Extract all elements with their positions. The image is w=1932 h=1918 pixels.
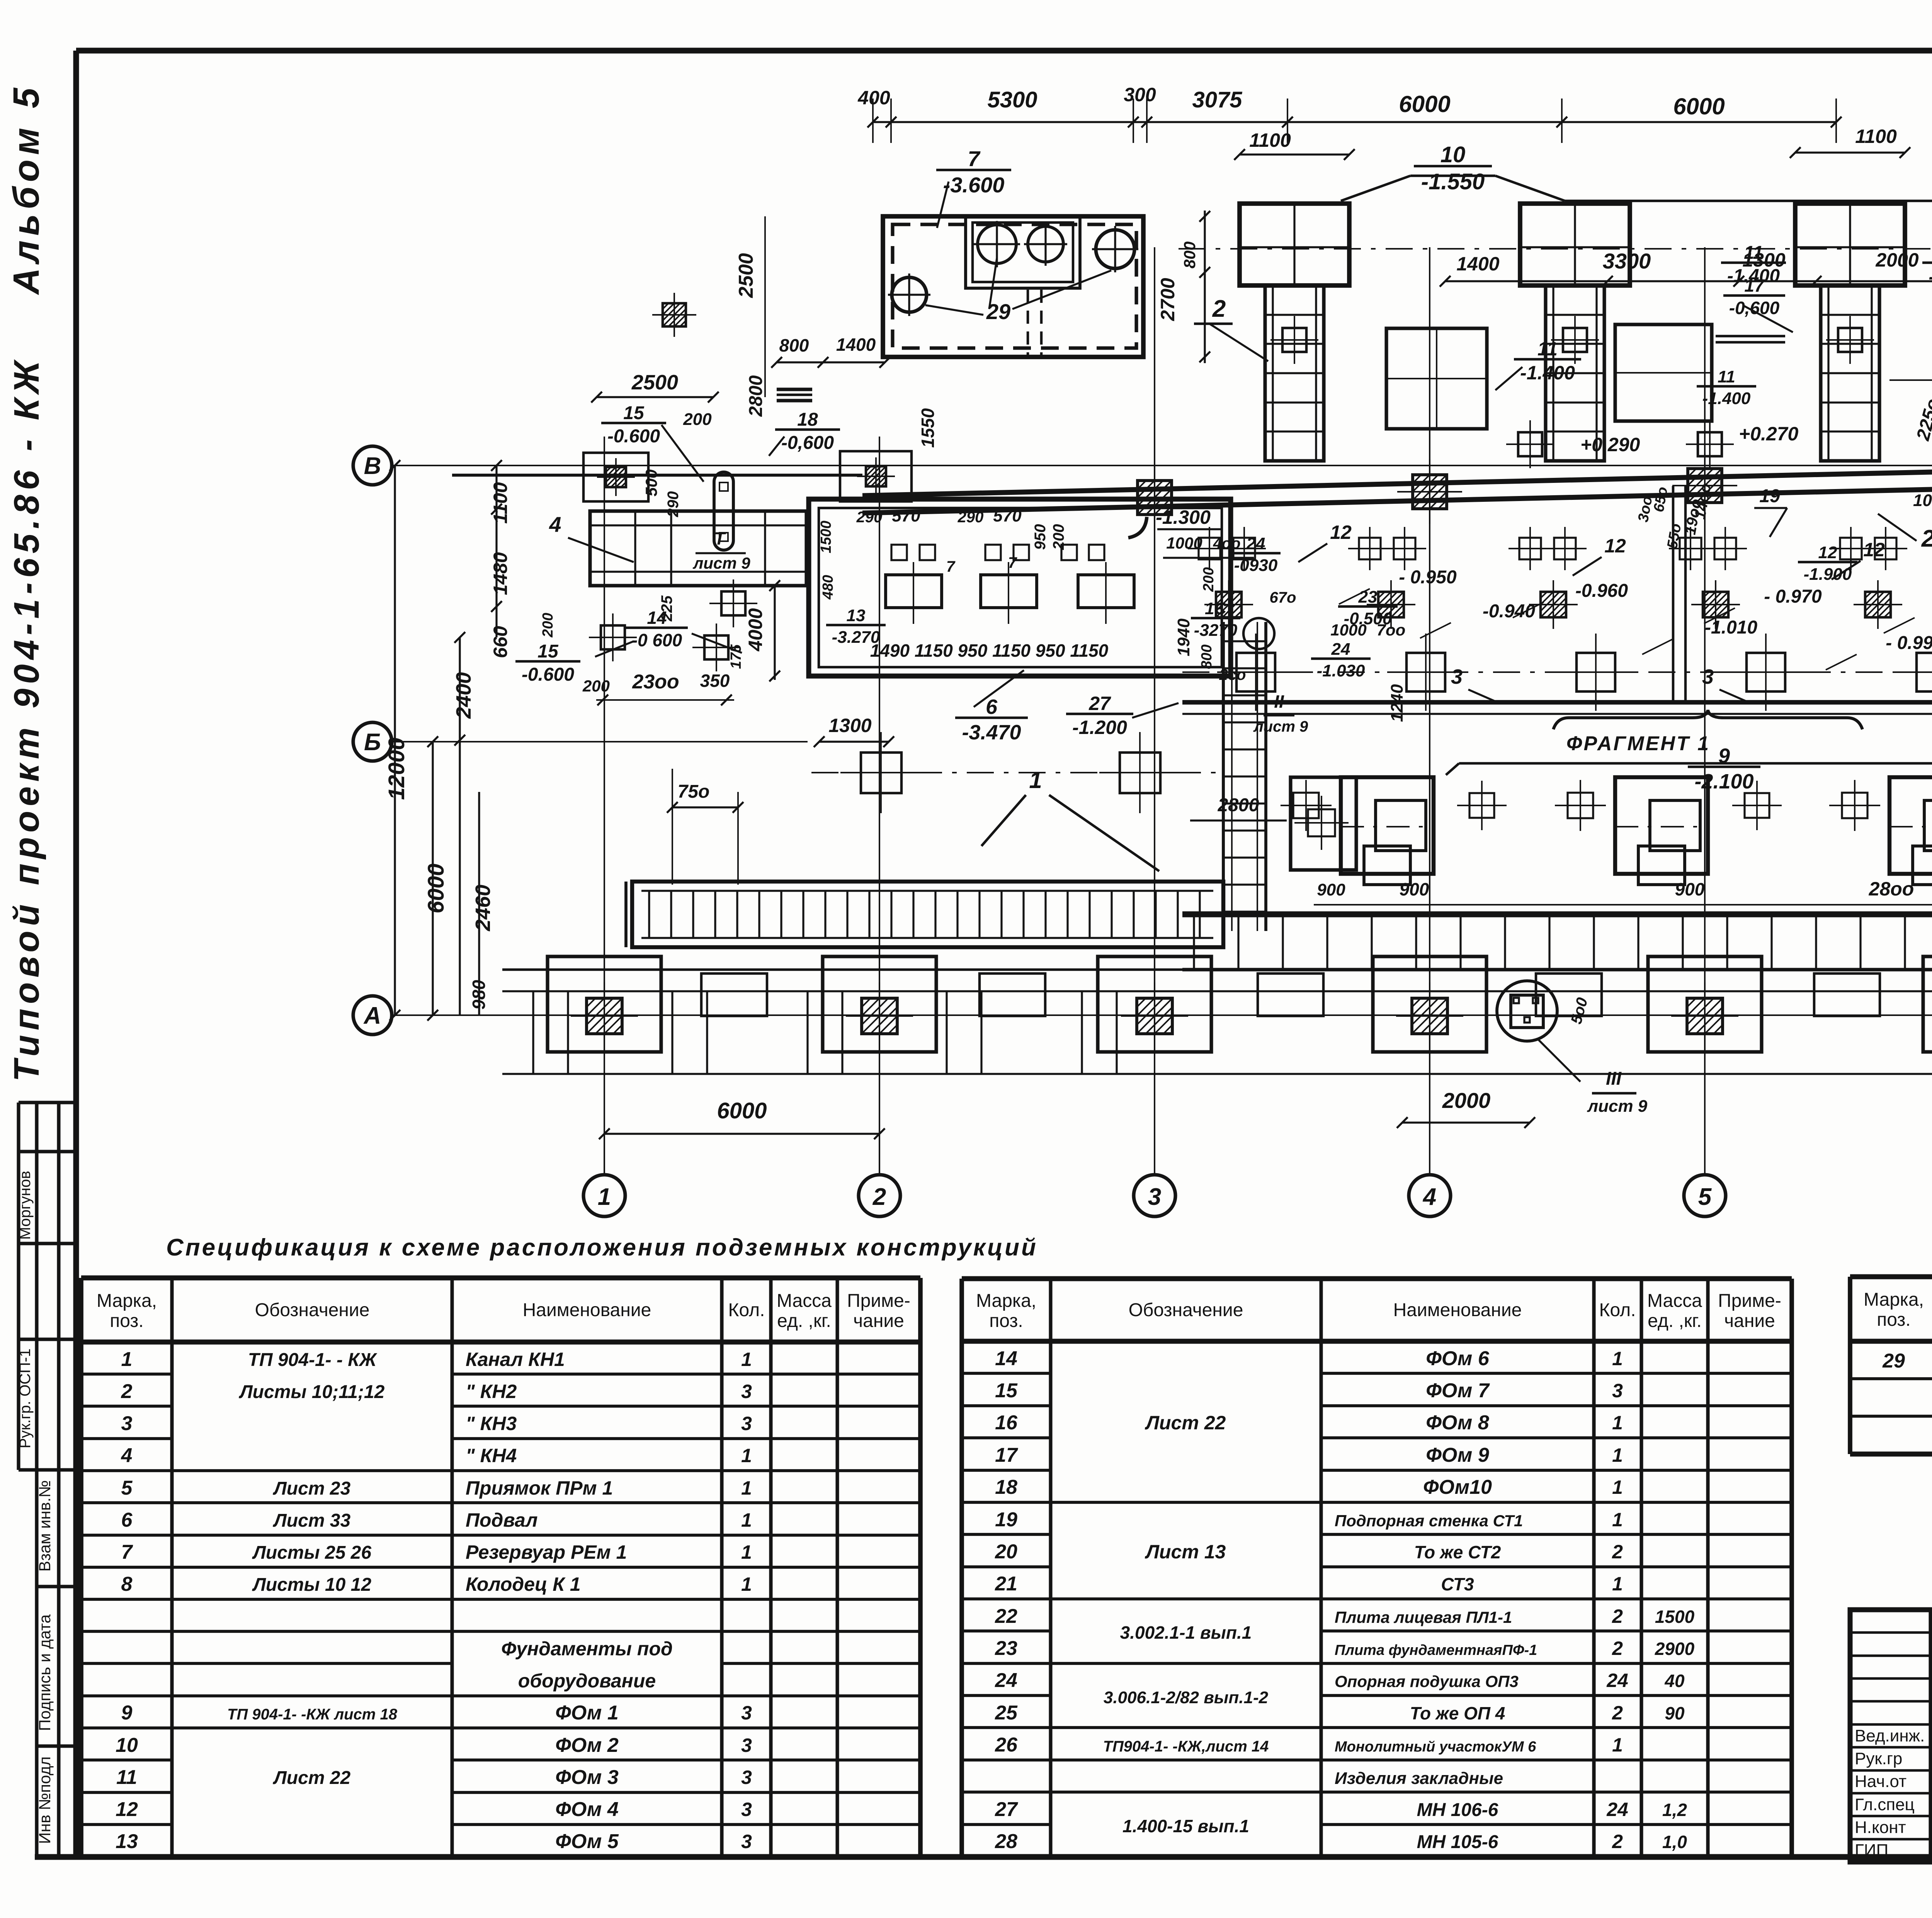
- svg-text:Подвал: Подвал: [466, 1509, 537, 1531]
- svg-text:1: 1: [1612, 1412, 1623, 1434]
- svg-text:1030: 1030: [1913, 491, 1932, 510]
- svg-text:290: 290: [665, 491, 682, 518]
- svg-text:Опорная подушка ОП3: Опорная подушка ОП3: [1335, 1672, 1519, 1690]
- svg-text:-1.400: -1.400: [1702, 389, 1751, 408]
- svg-text:Альбом 5: Альбом 5: [6, 83, 47, 295]
- svg-text:23: 23: [1358, 588, 1378, 606]
- svg-text:- 0.950: - 0.950: [1399, 567, 1457, 588]
- svg-text:17: 17: [1744, 275, 1765, 296]
- retaining wall line -1.200: [1182, 700, 1932, 705]
- svg-text:Рук.гр: Рук.гр: [1855, 1749, 1902, 1768]
- svg-text:1: 1: [1612, 1444, 1623, 1466]
- svg-text:3: 3: [1702, 665, 1714, 688]
- svg-text:2460: 2460: [471, 885, 495, 931]
- svg-text:11: 11: [116, 1766, 137, 1789]
- svg-text:2000: 2000: [1875, 249, 1918, 271]
- svg-text:-1.400: -1.400: [1520, 362, 1575, 384]
- detail III circle: [1497, 981, 1557, 1041]
- svg-text:чание: чание: [853, 1311, 904, 1331]
- svg-text:200: 200: [1050, 524, 1067, 550]
- cellular wall band right: [1182, 914, 1932, 917]
- fragment 1 bracket: [1553, 710, 1862, 729]
- svg-text:Изделия закладные: Изделия закладные: [1335, 1769, 1503, 1788]
- svg-text:Лист 23: Лист 23: [273, 1478, 351, 1499]
- svg-text:6000: 6000: [717, 1098, 767, 1123]
- svg-text:1: 1: [741, 1349, 752, 1370]
- svg-text:-0,600: -0,600: [781, 433, 834, 453]
- svg-text:3.002.1-1 вып.1: 3.002.1-1 вып.1: [1120, 1622, 1252, 1643]
- svg-text:-1.200: -1.200: [1072, 717, 1127, 738]
- svg-text:13: 13: [847, 606, 866, 625]
- svg-text:7: 7: [968, 146, 981, 171]
- svg-text:Колодец К 1: Колодец К 1: [466, 1573, 581, 1595]
- svg-text:1: 1: [741, 1445, 752, 1466]
- svg-text:Лист 22: Лист 22: [273, 1768, 351, 1788]
- svg-text:Марка,: Марка,: [97, 1291, 157, 1311]
- svg-text:Фундаменты под: Фундаменты под: [501, 1638, 673, 1660]
- svg-text:Подпись и дата: Подпись и дата: [36, 1614, 54, 1731]
- kanal strip vertical: [1222, 622, 1225, 931]
- svg-text:28оо: 28оо: [1869, 878, 1914, 900]
- svg-text:90: 90: [1665, 1703, 1685, 1723]
- svg-text:1: 1: [1612, 1476, 1623, 1498]
- svg-text:2: 2: [1612, 1638, 1623, 1659]
- mid footing squares left pair: [811, 772, 1221, 773]
- svg-text:2000: 2000: [1442, 1088, 1491, 1113]
- svg-text:1.400-15 вып.1: 1.400-15 вып.1: [1122, 1816, 1249, 1836]
- svg-text:1: 1: [1612, 1348, 1623, 1369]
- svg-text:25: 25: [995, 1702, 1018, 1724]
- svg-text:Резервуар РЕм 1: Резервуар РЕм 1: [466, 1541, 627, 1563]
- svg-text:2: 2: [872, 1184, 886, 1210]
- svg-text:" КН2: " КН2: [466, 1381, 517, 1402]
- svg-text:6000: 6000: [1673, 93, 1725, 119]
- svg-text:ФОм 1: ФОм 1: [555, 1702, 619, 1724]
- svg-text:23оо: 23оо: [632, 671, 679, 693]
- svg-text:18: 18: [995, 1476, 1017, 1498]
- column footings on axis В: [1138, 481, 1172, 515]
- machine foundation assemblies: [1341, 777, 1434, 874]
- svg-text:5300: 5300: [987, 87, 1037, 112]
- svg-text:" КН3: " КН3: [466, 1413, 517, 1434]
- right specification table: [1848, 1277, 1852, 1454]
- svg-text:1: 1: [121, 1348, 133, 1371]
- svg-text:1: 1: [598, 1184, 611, 1210]
- left dimension chain 12000/6000: [394, 465, 396, 1015]
- svg-text:Рук.гр. ОСП-1: Рук.гр. ОСП-1: [17, 1349, 34, 1449]
- svg-text:ФОм 6: ФОм 6: [1426, 1347, 1490, 1370]
- title block: [1850, 1610, 1932, 1862]
- svg-text:Гл.спец: Гл.спец: [1855, 1795, 1915, 1814]
- svg-text:+0.270: +0.270: [1739, 423, 1799, 445]
- svg-text:6000: 6000: [1399, 91, 1450, 117]
- +0.2xx level marks: [1518, 432, 1542, 456]
- svg-text:200: 200: [1201, 567, 1217, 592]
- svg-text:27: 27: [995, 1798, 1018, 1821]
- svg-text:1: 1: [1029, 767, 1042, 793]
- long hatched channel left: [632, 882, 1223, 947]
- svg-text:ФОм 4: ФОм 4: [555, 1798, 619, 1821]
- svg-text:1940: 1940: [1174, 618, 1193, 656]
- svg-text:2: 2: [1612, 1541, 1623, 1563]
- svg-text:МН 106-6: МН 106-6: [1417, 1800, 1498, 1820]
- svg-text:14: 14: [647, 608, 667, 628]
- sheet frame: [76, 48, 1932, 54]
- svg-text:3: 3: [741, 1413, 752, 1434]
- svg-text:22: 22: [995, 1605, 1017, 1627]
- svg-text:350: 350: [700, 671, 730, 691]
- svg-text:11: 11: [1537, 338, 1558, 360]
- svg-text:13: 13: [116, 1830, 138, 1853]
- vertical channel walls mid field: [1672, 486, 1675, 702]
- svg-text:СТ3: СТ3: [1441, 1574, 1474, 1594]
- svg-text:Наименование: Наименование: [523, 1300, 651, 1320]
- svg-text:Т: Т: [714, 528, 726, 549]
- hatched footing row: [1216, 592, 1242, 617]
- svg-text:+0.290: +0.290: [1580, 434, 1640, 455]
- svg-text:3: 3: [1612, 1380, 1623, 1402]
- svg-text:" КН4: " КН4: [466, 1445, 517, 1466]
- svg-text:800: 800: [1199, 644, 1215, 669]
- svg-text:2500: 2500: [631, 371, 678, 394]
- svg-text:3: 3: [741, 1381, 752, 1402]
- svg-text:3: 3: [1451, 665, 1463, 688]
- svg-text:1400: 1400: [836, 335, 876, 355]
- svg-text:Приямок ПРм 1: Приямок ПРм 1: [466, 1477, 613, 1499]
- svg-text:7: 7: [121, 1541, 133, 1563]
- svg-text:-0.960: -0.960: [1575, 581, 1628, 601]
- svg-text:24: 24: [1246, 534, 1265, 553]
- tower foundation B (poz.2): [1520, 204, 1630, 285]
- svg-text:поз.: поз.: [989, 1311, 1023, 1331]
- svg-text:9: 9: [1718, 744, 1730, 768]
- retaining wall strip left: [590, 511, 806, 586]
- svg-text:То же ОП 4: То же ОП 4: [1410, 1703, 1505, 1723]
- svg-text:23: 23: [995, 1637, 1017, 1660]
- svg-text:1: 1: [741, 1573, 752, 1595]
- svg-text:3: 3: [121, 1412, 133, 1435]
- grid axis circles В Б А: [353, 446, 392, 485]
- svg-text:1100: 1100: [490, 482, 511, 524]
- svg-text:2500: 2500: [735, 253, 757, 298]
- mid foundation blocks between towers: [1386, 328, 1487, 429]
- svg-text:660: 660: [490, 626, 511, 658]
- svg-text:12: 12: [116, 1798, 138, 1821]
- svg-text:2700: 2700: [1157, 278, 1179, 321]
- svg-text:ГИП: ГИП: [1855, 1841, 1888, 1860]
- svg-text:3: 3: [741, 1831, 752, 1852]
- svg-text:То же СТ2: То же СТ2: [1414, 1542, 1501, 1562]
- svg-text:900: 900: [1400, 879, 1429, 899]
- svg-text:3: 3: [741, 1767, 752, 1788]
- svg-text:-1.900: -1.900: [1804, 565, 1852, 584]
- svg-text:ед. ,кг.: ед. ,кг.: [777, 1311, 831, 1331]
- svg-text:1,0: 1,0: [1662, 1832, 1687, 1852]
- svg-text:2со: 2со: [1219, 666, 1246, 683]
- basement inner footings pairs: [891, 545, 907, 560]
- svg-text:800: 800: [1180, 241, 1199, 268]
- svg-text:-3270: -3270: [1194, 621, 1238, 640]
- meander vertical strokes left: [532, 991, 534, 1074]
- svg-text:1: 1: [741, 1477, 752, 1499]
- svg-text:1: 1: [741, 1509, 752, 1531]
- svg-text:6000: 6000: [423, 863, 449, 913]
- svg-text:3.006.1-2/82 вып.1-2: 3.006.1-2/82 вып.1-2: [1104, 1688, 1269, 1707]
- svg-text:40: 40: [1664, 1671, 1685, 1691]
- bottom dimension lines: [604, 1133, 879, 1135]
- svg-text:1,2: 1,2: [1662, 1800, 1687, 1820]
- svg-text:1300: 1300: [828, 715, 871, 736]
- svg-text:оборудование: оборудование: [518, 1670, 656, 1692]
- svg-text:Канал КН1: Канал КН1: [466, 1349, 565, 1370]
- svg-text:15: 15: [537, 641, 559, 662]
- svg-text:1: 1: [1612, 1734, 1623, 1756]
- svg-text:1500: 1500: [1655, 1607, 1695, 1627]
- svg-text:-1.300: -1.300: [1156, 506, 1211, 528]
- svg-text:2: 2: [1612, 1702, 1623, 1724]
- svg-text:Взам инв.№: Взам инв.№: [36, 1480, 54, 1572]
- middle specification table: [959, 1279, 964, 1857]
- svg-text:Масса: Масса: [777, 1291, 832, 1311]
- svg-text:2: 2: [1212, 296, 1226, 322]
- svg-text:ТП 904-1- -КЖ лист 18: ТП 904-1- -КЖ лист 18: [227, 1706, 398, 1723]
- svg-text:2: 2: [1612, 1605, 1623, 1627]
- svg-text:-3.600: -3.600: [943, 173, 1005, 197]
- svg-text:9: 9: [121, 1702, 133, 1724]
- svg-text:4: 4: [549, 512, 561, 537]
- svg-text:2800: 2800: [1218, 795, 1259, 815]
- svg-text:4000: 4000: [745, 608, 766, 651]
- svg-text:3: 3: [1148, 1184, 1161, 1210]
- svg-text:900: 900: [1675, 879, 1705, 899]
- svg-text:12: 12: [1604, 535, 1626, 557]
- svg-text:-0.600: -0.600: [607, 426, 660, 447]
- svg-text:2800: 2800: [746, 375, 766, 417]
- meander walls: [502, 968, 1182, 971]
- svg-text:Плита лицевая ПЛ1-1: Плита лицевая ПЛ1-1: [1335, 1608, 1512, 1626]
- left specification table: [79, 1278, 83, 1857]
- svg-text:Н.конт: Н.конт: [1855, 1818, 1906, 1837]
- svg-text:3300: 3300: [1603, 249, 1651, 273]
- svg-text:570: 570: [892, 506, 920, 525]
- svg-text:3: 3: [741, 1799, 752, 1820]
- svg-text:175: 175: [728, 644, 744, 669]
- svg-text:2900: 2900: [1655, 1639, 1695, 1659]
- svg-text:-3.470: -3.470: [962, 721, 1021, 744]
- svg-text:1: 1: [741, 1541, 752, 1563]
- svg-text:15: 15: [623, 403, 645, 423]
- В axis footing left2: [840, 451, 912, 501]
- svg-text:Приме-: Приме-: [1718, 1291, 1781, 1311]
- svg-text:200: 200: [540, 613, 556, 637]
- svg-text:ФОм10: ФОм10: [1423, 1476, 1492, 1498]
- svg-text:2: 2: [1921, 525, 1932, 552]
- svg-text:-1.030: -1.030: [1317, 661, 1365, 680]
- svg-text:Б: Б: [364, 729, 381, 756]
- heavy line bottom of machine row: [1182, 911, 1932, 916]
- svg-text:19: 19: [995, 1509, 1017, 1531]
- svg-text:поз.: поз.: [110, 1311, 144, 1331]
- grid bottom circles 1-7: [583, 1175, 625, 1216]
- svg-text:Подпорная стенка СТ1: Подпорная стенка СТ1: [1335, 1512, 1523, 1530]
- svg-text:7оо: 7оо: [1377, 621, 1406, 639]
- svg-text:3075: 3075: [1192, 87, 1242, 112]
- svg-text:ФОм 5: ФОм 5: [555, 1830, 619, 1853]
- machine row left partial: [1291, 777, 1356, 870]
- svg-text:1400: 1400: [1456, 253, 1499, 275]
- small footings below axis В left: [663, 303, 686, 326]
- svg-text:III: III: [1606, 1069, 1622, 1089]
- svg-text:ФОм 8: ФОм 8: [1426, 1412, 1489, 1434]
- svg-text:400: 400: [857, 87, 890, 109]
- vertical grid lines: [604, 437, 605, 1175]
- svg-text:67о: 67о: [1270, 589, 1296, 606]
- svg-text:2400: 2400: [452, 672, 475, 719]
- svg-text:-0.600: -0.600: [522, 664, 574, 685]
- svg-text:7: 7: [946, 558, 956, 575]
- svg-text:Лист 33: Лист 33: [273, 1510, 351, 1531]
- svg-text:10: 10: [1440, 142, 1466, 167]
- svg-text:1: 1: [1612, 1573, 1623, 1595]
- svg-text:15: 15: [995, 1379, 1018, 1402]
- svg-text:Кол.: Кол.: [728, 1300, 765, 1320]
- svg-text:2: 2: [121, 1380, 133, 1403]
- svg-text:ТП904-1- -КЖ,лист 14: ТП904-1- -КЖ,лист 14: [1103, 1738, 1269, 1755]
- svg-text:Обозначение: Обозначение: [255, 1300, 370, 1320]
- svg-text:6: 6: [986, 695, 998, 719]
- tank manhole circles: [978, 225, 1016, 263]
- svg-text:лист 9: лист 9: [1253, 718, 1308, 735]
- svg-text:11: 11: [1718, 367, 1735, 386]
- svg-text:Листы 10 12: Листы 10 12: [252, 1575, 371, 1595]
- svg-text:-0,600: -0,600: [1729, 298, 1780, 318]
- svg-text:Лист 22: Лист 22: [1145, 1412, 1226, 1434]
- basement poz.6 outer: [809, 499, 1231, 676]
- svg-text:Листы 10;11;12: Листы 10;11;12: [239, 1382, 385, 1402]
- svg-text:300: 300: [1124, 84, 1156, 105]
- svg-text:Марка,: Марка,: [1864, 1289, 1924, 1310]
- small footing pairs row: [1199, 538, 1220, 559]
- svg-text:Нач.от: Нач.от: [1855, 1772, 1906, 1791]
- svg-text:5: 5: [121, 1477, 133, 1499]
- centerline through towers: [1179, 248, 1932, 250]
- svg-text:19: 19: [1759, 486, 1780, 506]
- svg-text:24: 24: [1606, 1799, 1628, 1820]
- svg-text:4: 4: [1422, 1184, 1436, 1210]
- svg-text:290: 290: [957, 509, 984, 526]
- svg-text:3: 3: [741, 1702, 752, 1724]
- svg-text:6: 6: [121, 1509, 133, 1531]
- svg-text:16: 16: [995, 1412, 1018, 1434]
- svg-text:29: 29: [1882, 1350, 1905, 1372]
- svg-text:чание: чание: [1724, 1311, 1775, 1331]
- svg-text:21: 21: [995, 1573, 1017, 1595]
- pill handrail on axis В: [714, 472, 733, 550]
- svg-text:7: 7: [1008, 554, 1017, 571]
- svg-text:ФРАГМЕНТ 1: ФРАГМЕНТ 1: [1566, 732, 1710, 755]
- svg-text:75о: 75о: [678, 781, 710, 802]
- svg-text:Спецификация к схеме распол: Спецификация к схеме расположения подзем…: [166, 1234, 1038, 1261]
- svg-text:11: 11: [1744, 243, 1763, 263]
- svg-text:Наименование: Наименование: [1393, 1300, 1522, 1320]
- svg-text:24: 24: [1331, 640, 1350, 659]
- svg-text:Монолитный участокУМ 6: Монолитный участокУМ 6: [1335, 1739, 1536, 1755]
- svg-text:570: 570: [993, 506, 1022, 525]
- svg-text:ФОм 9: ФОм 9: [1426, 1444, 1489, 1466]
- svg-text:Инв №подл: Инв №подл: [36, 1757, 54, 1844]
- top dimension chain: [873, 121, 1836, 123]
- svg-text:ФОм 7: ФОм 7: [1426, 1379, 1490, 1402]
- svg-text:Лист 13: Лист 13: [1145, 1541, 1226, 1563]
- svg-text:200: 200: [683, 410, 712, 429]
- svg-text:поз.: поз.: [1877, 1310, 1911, 1330]
- svg-text:1100: 1100: [1855, 126, 1897, 147]
- svg-text:Масса: Масса: [1647, 1291, 1702, 1311]
- svg-text:- 0.970: - 0.970: [1764, 586, 1822, 607]
- svg-text:1000: 1000: [1330, 621, 1366, 639]
- svg-text:14: 14: [995, 1347, 1017, 1370]
- label 9 -2.100 bracket: [1459, 762, 1932, 765]
- svg-text:Моргунов: Моргунов: [17, 1171, 34, 1240]
- svg-text:В: В: [364, 453, 381, 479]
- svg-text:2: 2: [1612, 1831, 1623, 1852]
- svg-text:1: 1: [1612, 1509, 1623, 1531]
- svg-text:28: 28: [995, 1830, 1017, 1853]
- svg-text:4: 4: [121, 1444, 133, 1467]
- svg-text:Плита фундаментнаяПФ-1: Плита фундаментнаяПФ-1: [1335, 1642, 1537, 1658]
- wall band axis В: [452, 474, 862, 477]
- svg-text:Кол.: Кол.: [1599, 1300, 1636, 1320]
- svg-text:17: 17: [995, 1444, 1018, 1466]
- svg-text:950: 950: [1032, 524, 1049, 550]
- channel inlet circle: [1243, 618, 1274, 649]
- svg-text:Типовой проект 904-1-65.86 -: Типовой проект 904-1-65.86 - КЖ: [7, 356, 46, 1082]
- svg-text:1550: 1550: [918, 408, 938, 448]
- svg-text:290: 290: [856, 509, 883, 526]
- rail detail 18: [777, 387, 812, 391]
- svg-text:27: 27: [1088, 693, 1111, 714]
- svg-text:лист 9: лист 9: [1587, 1097, 1648, 1116]
- svg-text:10: 10: [116, 1734, 138, 1757]
- left edge walls: [624, 882, 628, 947]
- svg-text:Вед.инж.: Вед.инж.: [1855, 1726, 1925, 1745]
- mid footing row right with centerline: [1182, 671, 1932, 673]
- svg-text:- 0.990: - 0.990: [1886, 633, 1932, 653]
- tower foundation A (poz.2): [1240, 204, 1349, 285]
- svg-text:480: 480: [820, 575, 836, 600]
- svg-text:12000: 12000: [384, 737, 409, 800]
- svg-text:-0930: -0930: [1234, 556, 1278, 575]
- svg-text:-0.940: -0.940: [1483, 601, 1535, 622]
- svg-text:А: А: [363, 1002, 381, 1029]
- axis A footing boxes: [548, 956, 661, 1052]
- tower foundation C (poz.2): [1795, 204, 1905, 285]
- svg-text:-2,340: -2,340: [1929, 266, 1932, 288]
- svg-text:200: 200: [582, 677, 610, 695]
- svg-text:24: 24: [1606, 1670, 1628, 1691]
- В axis footing left1: [583, 453, 648, 501]
- svg-text:ФОм 2: ФОм 2: [555, 1734, 619, 1757]
- svg-text:12: 12: [1863, 539, 1885, 561]
- svg-text:900: 900: [1317, 880, 1345, 899]
- svg-text:12: 12: [1818, 543, 1837, 562]
- svg-text:26: 26: [995, 1734, 1018, 1756]
- svg-text:Марка,: Марка,: [976, 1291, 1036, 1311]
- svg-text:1100: 1100: [1249, 129, 1291, 151]
- meander bottom line: [502, 1073, 1932, 1075]
- svg-text:800: 800: [779, 335, 809, 355]
- svg-text:-0 600: -0 600: [632, 630, 682, 650]
